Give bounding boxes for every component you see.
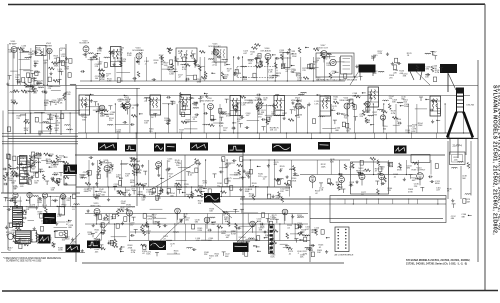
transformer T-YOKE dark block xyxy=(408,64,425,81)
svg-text:1.5K: 1.5K xyxy=(319,190,324,192)
svg-text:22K: 22K xyxy=(360,116,364,118)
svg-text:100: 100 xyxy=(332,73,336,75)
wire tuner AGC line b xyxy=(8,112,80,114)
waveform photo W8 xyxy=(318,142,330,150)
transformer T-FOCUS dark block xyxy=(359,65,376,77)
wire trunk line 1 xyxy=(2,133,78,135)
svg-text:22K: 22K xyxy=(414,186,418,188)
svg-text:33K: 33K xyxy=(392,102,396,104)
svg-text:2.2M: 2.2M xyxy=(38,214,43,216)
wire tuner AGC line a xyxy=(8,110,80,112)
svg-text:.22: .22 xyxy=(163,238,167,240)
svg-text:1.5K: 1.5K xyxy=(11,232,16,234)
svg-text:100: 100 xyxy=(223,130,227,132)
tube V128 xyxy=(60,194,65,199)
tube V123 xyxy=(379,174,385,180)
node speaker and interlock box LS1 xyxy=(316,53,354,77)
wire pointer 9 xyxy=(447,73,449,92)
tube V118 SYNC SEP xyxy=(130,159,141,170)
transformer T2 IF can xyxy=(111,47,122,67)
wire tuner drop b xyxy=(44,60,46,111)
tube V106 1ST AUDIO xyxy=(260,48,271,59)
svg-text:.005: .005 xyxy=(53,167,58,169)
wire right border line xyxy=(484,4,486,291)
svg-text:.02: .02 xyxy=(8,250,12,252)
svg-text:12K: 12K xyxy=(125,176,129,178)
svg-text:SOUND IF: SOUND IF xyxy=(79,43,90,45)
svg-text:33K: 33K xyxy=(119,50,123,52)
svg-text:1.5K: 1.5K xyxy=(61,56,66,58)
svg-text:4.7M: 4.7M xyxy=(231,233,236,235)
svg-text:56K: 56K xyxy=(263,100,267,102)
svg-text:680: 680 xyxy=(56,125,60,127)
svg-text:100: 100 xyxy=(50,117,54,119)
node value labels in discriminator area section xyxy=(8,153,65,191)
svg-text:2.2M: 2.2M xyxy=(378,53,383,55)
tube V105 SOUND DET xyxy=(208,44,221,55)
svg-text:.22: .22 xyxy=(373,57,377,59)
svg-text:1.5K: 1.5K xyxy=(13,188,18,190)
wire trunk line 4 xyxy=(2,143,78,145)
wire vert linearity bus xyxy=(130,231,268,233)
wire main B+ bus xyxy=(8,138,478,140)
node value labels in convergence area section xyxy=(301,227,324,256)
svg-text:.005: .005 xyxy=(94,251,99,253)
svg-text:8.2K: 8.2K xyxy=(181,106,186,108)
wire CRT lead down 2 xyxy=(460,166,462,199)
wire tuner drop wire xyxy=(60,110,62,135)
svg-text:4.7M: 4.7M xyxy=(303,253,308,255)
svg-text:10K: 10K xyxy=(34,63,38,65)
svg-text:2.2M: 2.2M xyxy=(269,78,274,80)
wire CRT lead down 3 xyxy=(470,141,472,196)
tube V132 xyxy=(204,217,210,223)
waveform photo W13 xyxy=(39,235,51,244)
svg-text:.047: .047 xyxy=(130,225,135,227)
svg-text:.02: .02 xyxy=(297,117,301,119)
svg-text:.01: .01 xyxy=(265,237,269,239)
node filament box xyxy=(32,231,37,243)
svg-text:2.2M: 2.2M xyxy=(107,81,112,83)
svg-text:270: 270 xyxy=(109,120,113,122)
svg-text:MIXER: MIXER xyxy=(45,45,52,47)
svg-text:.22: .22 xyxy=(83,174,87,176)
svg-text:270: 270 xyxy=(324,59,328,61)
svg-text:47: 47 xyxy=(189,100,192,102)
wire tuner lower rungs xyxy=(12,112,70,134)
tube V119 xyxy=(156,162,162,168)
svg-text:12K: 12K xyxy=(154,62,158,64)
svg-text:120K: 120K xyxy=(216,202,221,204)
wire power section bottom line xyxy=(1,252,85,254)
svg-text:22K: 22K xyxy=(300,257,304,259)
node discriminator component stack xyxy=(20,156,28,184)
svg-text:270: 270 xyxy=(17,118,21,120)
wire right side B+ wire xyxy=(477,60,479,262)
svg-text:470K: 470K xyxy=(242,79,247,81)
tube V117 AGC KEYER xyxy=(99,160,112,171)
svg-text:22K: 22K xyxy=(204,254,208,256)
wire sound row left bus xyxy=(76,88,140,90)
wire IF rung segments xyxy=(86,104,427,129)
wire sound rung segments xyxy=(88,56,345,75)
svg-text:.02: .02 xyxy=(227,71,231,73)
waveform photo W16 xyxy=(233,243,249,253)
svg-text:6800: 6800 xyxy=(177,189,182,191)
svg-text:680: 680 xyxy=(274,164,278,166)
svg-text:120K: 120K xyxy=(8,180,13,182)
node width coil box xyxy=(411,155,430,163)
waveform photo W7 xyxy=(272,144,291,152)
svg-text:470K: 470K xyxy=(147,218,152,220)
resistor/capacitor cluster in tuner lower section xyxy=(7,114,72,132)
svg-text:.047: .047 xyxy=(118,101,123,103)
svg-text:12K: 12K xyxy=(29,56,33,58)
wire vertical feed wire x137 xyxy=(136,88,138,206)
svg-text:680: 680 xyxy=(258,67,262,69)
svg-text:4.7M: 4.7M xyxy=(175,162,180,164)
svg-text:.02: .02 xyxy=(280,168,284,170)
waveform photo W15 xyxy=(149,241,166,250)
svg-text:120K: 120K xyxy=(37,202,42,204)
svg-text:470K: 470K xyxy=(97,51,102,53)
node fine tuning box xyxy=(36,46,47,56)
wire left column separator wire xyxy=(75,86,77,263)
svg-text:6800: 6800 xyxy=(435,183,440,185)
node value labels in deflection row section xyxy=(88,208,306,260)
tube V108 xyxy=(99,105,105,111)
svg-text:390K: 390K xyxy=(121,61,126,63)
wire far left wire xyxy=(2,111,4,194)
svg-text:390K: 390K xyxy=(297,80,302,82)
wire tuner right wire xyxy=(65,44,67,110)
tube V109 1ST VIDEO IF xyxy=(117,97,131,108)
svg-text:.22: .22 xyxy=(212,64,216,66)
svg-text:.01: .01 xyxy=(190,175,194,177)
svg-text:33K: 33K xyxy=(49,156,53,158)
transformer T-DEFL dark block xyxy=(440,64,457,92)
transformer T103 filter choke with pilot lamp xyxy=(8,231,31,244)
svg-text:1.5K: 1.5K xyxy=(196,240,201,242)
svg-text:270: 270 xyxy=(149,131,153,133)
node picture control terminal bar xyxy=(269,225,275,254)
tube V131 xyxy=(175,208,181,214)
tube V107 AUDIO OUT xyxy=(316,45,328,56)
svg-text:270: 270 xyxy=(301,232,305,234)
svg-text:V102: V102 xyxy=(46,43,52,45)
svg-text:270: 270 xyxy=(258,116,262,118)
wire AGC bus xyxy=(76,196,245,198)
svg-text:390K: 390K xyxy=(397,169,402,171)
wire pointer 8 xyxy=(416,72,430,86)
svg-text:HOR OUTPUT: HOR OUTPUT xyxy=(412,170,426,172)
svg-text:56K: 56K xyxy=(193,104,197,106)
svg-text:.1: .1 xyxy=(349,169,352,171)
resistor/capacitor cluster in video IF row section xyxy=(83,92,440,130)
svg-text:100: 100 xyxy=(176,165,180,167)
wire deflection lower bus xyxy=(85,223,308,225)
svg-text:V124: V124 xyxy=(417,167,423,169)
svg-text:1K: 1K xyxy=(59,158,62,160)
svg-text:56K: 56K xyxy=(285,190,289,192)
svg-text:470K: 470K xyxy=(268,232,273,234)
wire CRT lead down 1 xyxy=(447,141,449,199)
svg-text:390K: 390K xyxy=(281,66,286,68)
svg-text:390K: 390K xyxy=(116,132,121,134)
svg-text:8.2K: 8.2K xyxy=(118,55,123,57)
svg-text:8.2K: 8.2K xyxy=(245,174,250,176)
svg-text:8.2K: 8.2K xyxy=(330,161,335,163)
transformer T3 IF can xyxy=(150,95,161,115)
svg-text:56K: 56K xyxy=(373,73,377,75)
wire sync row top bus xyxy=(75,154,445,156)
node value labels in tuner section xyxy=(8,46,71,108)
svg-text:21T201, 24C601, 24T201 Series: 21T201, 24C601, 24T201 Series (Ch. 1-532… xyxy=(406,262,467,265)
wire sync row drops xyxy=(88,159,292,187)
svg-text:47: 47 xyxy=(375,171,378,173)
wire schematic bottom boundary xyxy=(82,262,344,264)
svg-text:390K: 390K xyxy=(121,203,126,205)
wire deflection row top bus xyxy=(3,206,135,208)
node ion trap label box xyxy=(452,155,463,163)
svg-text:33K: 33K xyxy=(403,76,407,78)
svg-text:10K: 10K xyxy=(144,123,148,125)
wire tuner rungs xyxy=(17,48,65,86)
svg-text:270: 270 xyxy=(388,190,392,192)
svg-text:.22: .22 xyxy=(263,179,267,181)
svg-text:8.2K: 8.2K xyxy=(37,158,42,160)
wire bottom border line xyxy=(2,290,498,293)
svg-text:.01: .01 xyxy=(72,209,76,211)
waveform photo W11 xyxy=(204,193,220,203)
svg-text:.005: .005 xyxy=(186,122,191,124)
svg-text:120K: 120K xyxy=(292,56,297,58)
svg-text:470K: 470K xyxy=(249,196,254,198)
svg-text:V105: V105 xyxy=(213,44,219,46)
transformer T6 IF can xyxy=(274,96,285,116)
tube V129 VERT OSC xyxy=(90,203,101,214)
wire pointer 3 xyxy=(150,163,196,190)
resistor/capacitor cluster in deflection row section xyxy=(81,208,310,256)
svg-text:.005: .005 xyxy=(131,188,136,190)
svg-text:270: 270 xyxy=(389,77,393,79)
svg-text:100: 100 xyxy=(380,169,384,171)
svg-text:1K: 1K xyxy=(407,55,410,57)
tube V116 xyxy=(380,115,385,120)
svg-text:V103: V103 xyxy=(83,40,89,42)
svg-text:.005: .005 xyxy=(54,130,59,132)
svg-text:10K: 10K xyxy=(54,175,58,177)
waveform photo W9 xyxy=(394,146,407,154)
wire deflection mid bus xyxy=(85,213,308,215)
svg-text:47: 47 xyxy=(209,258,212,260)
svg-text:33K: 33K xyxy=(44,105,48,107)
svg-text:21ATP4: 21ATP4 xyxy=(453,144,463,148)
svg-text:680: 680 xyxy=(11,183,15,185)
svg-text:270: 270 xyxy=(48,88,52,90)
wire pointer 7 xyxy=(350,73,358,86)
resistor/capacitor cluster in top right section xyxy=(354,52,443,82)
node audio output transformer xyxy=(283,53,290,68)
waveform photo W5 xyxy=(190,143,208,151)
svg-text:CONNECTED TO ALL CHASSIS GROUN: CONNECTED TO ALL CHASSIS GROUNDS xyxy=(317,79,358,82)
node value labels in tuner lower section xyxy=(17,115,62,137)
svg-text:390K: 390K xyxy=(257,221,262,223)
svg-text:.047: .047 xyxy=(267,119,272,121)
svg-text:SYLVANIA MODELS 21C501, 21C502: SYLVANIA MODELS 21C501, 21C502, 21C601, … xyxy=(491,85,497,235)
wire tuner rung segments xyxy=(10,52,67,131)
wire IF row drops xyxy=(86,103,465,133)
svg-text:8.2K: 8.2K xyxy=(57,216,62,218)
svg-text:.01: .01 xyxy=(288,253,292,255)
svg-text:.22: .22 xyxy=(144,100,148,102)
svg-text:.047: .047 xyxy=(109,167,114,169)
svg-text:.005: .005 xyxy=(20,186,25,188)
svg-text:33K: 33K xyxy=(108,243,112,245)
svg-text:.005: .005 xyxy=(185,220,190,222)
svg-text:12K: 12K xyxy=(90,60,94,62)
svg-text:22K: 22K xyxy=(66,200,70,202)
svg-text:4.7M: 4.7M xyxy=(79,177,84,179)
tube V122 HOR OSC xyxy=(356,168,366,179)
waveform photo W10 xyxy=(64,165,78,175)
svg-text:390K: 390K xyxy=(404,106,409,108)
svg-text:10K: 10K xyxy=(333,99,337,101)
svg-text:1.5K: 1.5K xyxy=(248,189,253,191)
svg-text:22K: 22K xyxy=(21,48,25,50)
wire B+ bus below sound row xyxy=(8,85,478,87)
CRT picture tube V110 21ATP4 xyxy=(447,88,473,139)
svg-text:8.2K: 8.2K xyxy=(146,254,151,256)
svg-text:.005: .005 xyxy=(454,159,459,161)
svg-text:680: 680 xyxy=(195,222,199,224)
tube V127 xyxy=(42,193,47,198)
wire sound row main bus xyxy=(80,80,345,82)
wire sound row drops xyxy=(91,56,340,81)
svg-text:470K: 470K xyxy=(128,247,133,249)
wire sync row mid bus xyxy=(76,186,290,188)
node alignment dashed box xyxy=(237,67,277,78)
waveform photo W4 xyxy=(166,144,177,152)
svg-text:390K: 390K xyxy=(260,227,265,229)
svg-text:.047: .047 xyxy=(225,237,230,239)
svg-text:.01: .01 xyxy=(319,247,323,249)
node discriminator box xyxy=(18,157,27,165)
svg-text:56K: 56K xyxy=(224,77,228,79)
node value labels in video IF row section xyxy=(81,93,423,134)
wire left edge lower wire xyxy=(7,160,9,250)
svg-text:33K: 33K xyxy=(461,216,465,218)
wire ion trap lead xyxy=(448,73,456,90)
transformer T201 sound take-off transformer xyxy=(176,48,197,66)
wire sync column wire xyxy=(242,150,244,255)
node selenium rectifier M1 xyxy=(59,207,65,216)
svg-text:6800: 6800 xyxy=(38,83,43,85)
waveform photo W12 xyxy=(43,213,56,224)
svg-text:V107: V107 xyxy=(321,45,327,47)
transformer T4 IF can xyxy=(180,95,191,115)
svg-text:470K: 470K xyxy=(296,76,301,78)
node phase det box xyxy=(64,176,76,186)
wire tuner left edge wire xyxy=(7,44,9,193)
node horizontal multivibrator box xyxy=(351,162,389,194)
resistor/capacitor cluster in sound row section xyxy=(80,44,346,83)
svg-text:.22: .22 xyxy=(131,107,135,109)
waveform photo W1 xyxy=(98,143,117,151)
svg-text:22K: 22K xyxy=(309,247,313,249)
svg-text:2.2M: 2.2M xyxy=(66,94,71,96)
svg-text:1.5K: 1.5K xyxy=(146,233,151,235)
transformer T1 IF can xyxy=(79,95,90,115)
svg-text:SCHEMATIC SEE NOTE 4-6 1955: SCHEMATIC SEE NOTE 4-6 1955 xyxy=(6,260,42,263)
wire IF bus ties xyxy=(86,132,450,139)
wire deflection rung segments xyxy=(103,209,300,254)
svg-text:680: 680 xyxy=(346,131,350,133)
svg-text:.01: .01 xyxy=(237,121,241,123)
svg-text:8.2K: 8.2K xyxy=(219,125,224,127)
svg-text:2.2M: 2.2M xyxy=(405,132,410,134)
tube V121 xyxy=(339,177,345,183)
tube V114 VIDEO AMP xyxy=(339,98,351,109)
wire IF row label underline bus xyxy=(85,95,470,97)
waveform photo W3 xyxy=(154,144,164,152)
svg-text:4.7M: 4.7M xyxy=(391,113,396,115)
svg-text:390K: 390K xyxy=(30,207,35,209)
svg-text:.01: .01 xyxy=(274,130,278,132)
svg-text:1K: 1K xyxy=(447,191,450,193)
svg-text:12K: 12K xyxy=(215,256,219,258)
svg-text:4.7M: 4.7M xyxy=(24,130,29,132)
svg-text:22K: 22K xyxy=(95,66,99,68)
svg-text:56K: 56K xyxy=(51,190,55,192)
wire vert output bus xyxy=(130,240,310,242)
svg-text:10K: 10K xyxy=(425,77,429,79)
node value labels in power supply area section xyxy=(6,198,78,252)
svg-text:.047: .047 xyxy=(141,200,146,202)
svg-text:10K: 10K xyxy=(317,252,321,254)
node value labels in right edge area section xyxy=(447,157,471,220)
svg-text:4.7M: 4.7M xyxy=(64,69,69,71)
svg-text:.1: .1 xyxy=(237,75,240,77)
svg-text:270: 270 xyxy=(88,191,92,193)
wire deflection ties 2 xyxy=(101,223,296,241)
transformer T202 ratio detector transformer xyxy=(214,47,227,66)
svg-text:22K: 22K xyxy=(151,194,155,196)
svg-text:470K: 470K xyxy=(408,191,413,193)
tube V134 xyxy=(282,209,288,215)
svg-text:.047: .047 xyxy=(31,169,36,171)
svg-text:.02: .02 xyxy=(315,193,319,195)
tube V130 VERT OUTPUT xyxy=(120,205,135,216)
svg-text:8.2K: 8.2K xyxy=(411,131,416,133)
wire yoke return line xyxy=(310,217,443,219)
tube V102 MIXER xyxy=(45,43,52,54)
wire power supply heading line xyxy=(1,192,80,194)
wire sync rung segments xyxy=(120,163,246,194)
wire sync aux bus xyxy=(243,159,350,161)
wire deflection ties xyxy=(96,213,292,225)
svg-text:.02: .02 xyxy=(287,227,291,229)
node HV rectifier box 1B3 xyxy=(450,152,466,165)
svg-text:2.2M: 2.2M xyxy=(465,201,470,203)
svg-text:56K: 56K xyxy=(225,256,229,258)
svg-text:8.2K: 8.2K xyxy=(211,54,216,56)
wire trunk line 3 xyxy=(2,141,78,143)
svg-text:2.2M: 2.2M xyxy=(198,230,203,232)
svg-text:.22: .22 xyxy=(178,77,182,79)
waveform photo W6 xyxy=(228,145,245,153)
svg-text:120K: 120K xyxy=(321,166,326,168)
